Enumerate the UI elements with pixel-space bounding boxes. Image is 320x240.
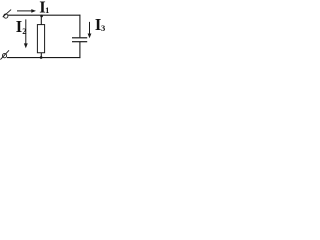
label I3: [95, 15, 105, 34]
node A junction dot top: [40, 15, 43, 18]
node B junction dot bottom: [40, 56, 43, 59]
svg-text:3: 3: [101, 23, 105, 33]
wire right vertical lower: [79, 42, 81, 58]
terminal top-left: [3, 10, 11, 19]
terminal bottom-left: [0, 50, 9, 59]
svg-text:1: 1: [45, 5, 49, 15]
wire resistor bottom lead: [40, 53, 42, 58]
current arrow I2 (down): [24, 19, 28, 48]
current arrow I3 (down): [88, 22, 92, 38]
wire right vertical upper: [79, 15, 81, 38]
label I2: [16, 17, 27, 36]
svg-text:I: I: [16, 17, 22, 36]
current arrow I1 (right): [17, 9, 36, 13]
capacitor C plates: [72, 38, 87, 42]
wire resistor top lead: [40, 15, 42, 24]
svg-text:2: 2: [22, 26, 26, 36]
resistor R (rectangle): [37, 25, 44, 53]
wire bottom horizontal: [7, 57, 81, 59]
wire top horizontal: [8, 14, 81, 16]
label I1: [39, 0, 49, 17]
